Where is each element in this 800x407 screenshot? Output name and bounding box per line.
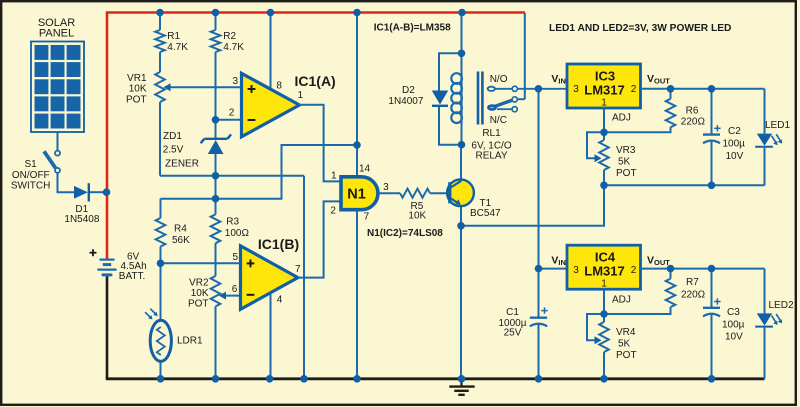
svg-text:1: 1: [331, 171, 337, 182]
svg-text:3: 3: [573, 84, 579, 95]
svg-text:VR3: VR3: [616, 145, 636, 156]
svg-text:R7: R7: [686, 277, 699, 288]
svg-text:IC1(B): IC1(B): [258, 236, 299, 252]
svg-text:ZENER: ZENER: [165, 159, 199, 170]
svg-text:C1: C1: [506, 307, 519, 318]
svg-text:10K: 10K: [129, 84, 147, 95]
svg-text:LM317: LM317: [584, 83, 624, 98]
svg-text:3: 3: [383, 182, 389, 193]
svg-text:IC1(A): IC1(A): [295, 73, 336, 89]
svg-text:5K: 5K: [618, 157, 631, 168]
svg-text:R3: R3: [226, 217, 239, 228]
svg-text:5K: 5K: [618, 339, 631, 350]
svg-text:N/O: N/O: [490, 74, 508, 85]
svg-text:ZD1: ZD1: [163, 131, 182, 142]
svg-text:VR2: VR2: [189, 278, 209, 289]
svg-text:IC4: IC4: [595, 250, 616, 265]
svg-text:56K: 56K: [172, 235, 190, 246]
svg-text:VR4: VR4: [616, 327, 636, 338]
svg-text:R1: R1: [167, 31, 180, 42]
svg-text:POT: POT: [616, 168, 637, 179]
svg-text:BATT.: BATT.: [119, 271, 145, 282]
svg-text:POT: POT: [126, 95, 147, 106]
svg-text:2: 2: [631, 84, 637, 95]
svg-text:IC1(A-B)=LM358: IC1(A-B)=LM358: [374, 23, 451, 34]
svg-text:R6: R6: [686, 106, 699, 117]
svg-text:IC3: IC3: [595, 69, 615, 84]
svg-text:25V: 25V: [504, 328, 522, 339]
svg-text:PANEL: PANEL: [39, 28, 74, 40]
svg-text:2.5V: 2.5V: [163, 145, 184, 156]
svg-text:D2: D2: [402, 85, 415, 96]
svg-text:C3: C3: [727, 307, 740, 318]
svg-text:10V: 10V: [725, 332, 743, 343]
svg-text:BC547: BC547: [470, 208, 501, 219]
svg-text:N/C: N/C: [490, 115, 507, 126]
svg-text:10V: 10V: [726, 151, 744, 162]
svg-text:1N5408: 1N5408: [64, 214, 99, 225]
svg-text:6: 6: [232, 284, 238, 295]
svg-text:RL1: RL1: [482, 128, 501, 139]
svg-text:10K: 10K: [408, 211, 426, 222]
svg-text:100µ: 100µ: [723, 139, 746, 150]
svg-text:LDR1: LDR1: [177, 336, 203, 347]
svg-text:ADJ: ADJ: [612, 295, 631, 306]
svg-text:220Ω: 220Ω: [681, 117, 706, 128]
svg-text:S1: S1: [25, 159, 38, 170]
svg-text:3: 3: [573, 265, 579, 276]
svg-text:POT: POT: [188, 299, 209, 310]
svg-text:N1(IC2)=74LS08: N1(IC2)=74LS08: [367, 228, 443, 239]
svg-text:RELAY: RELAY: [475, 151, 507, 162]
svg-text:10K: 10K: [191, 288, 209, 299]
svg-text:8: 8: [276, 81, 282, 92]
svg-text:100µ: 100µ: [722, 320, 745, 331]
svg-text:220Ω: 220Ω: [681, 290, 706, 301]
svg-text:LED2: LED2: [769, 300, 794, 311]
svg-text:LED1: LED1: [765, 120, 790, 131]
svg-text:3: 3: [233, 76, 239, 87]
svg-text:SWITCH: SWITCH: [11, 181, 50, 192]
svg-text:1: 1: [601, 98, 607, 109]
svg-text:POT: POT: [616, 350, 637, 361]
svg-text:R4: R4: [174, 224, 187, 235]
svg-text:4.7K: 4.7K: [167, 42, 188, 53]
svg-text:4.7K: 4.7K: [223, 42, 244, 53]
svg-text:R2: R2: [223, 31, 236, 42]
svg-text:C2: C2: [728, 126, 741, 137]
svg-text:N1: N1: [347, 186, 366, 202]
svg-text:1: 1: [298, 90, 304, 101]
svg-text:7: 7: [295, 264, 301, 275]
svg-text:LED1 AND LED2=3V, 3W POWER LED: LED1 AND LED2=3V, 3W POWER LED: [549, 23, 731, 34]
svg-text:ADJ: ADJ: [612, 113, 631, 124]
svg-text:14: 14: [359, 164, 371, 175]
svg-text:7: 7: [364, 212, 370, 223]
svg-text:1: 1: [601, 279, 607, 290]
svg-text:5: 5: [233, 252, 239, 263]
svg-text:LM317: LM317: [584, 264, 624, 279]
svg-text:1N4007: 1N4007: [388, 96, 423, 107]
svg-text:100Ω: 100Ω: [225, 228, 250, 239]
svg-text:ON/OFF: ON/OFF: [12, 170, 50, 181]
svg-text:2: 2: [330, 206, 336, 217]
svg-text:2: 2: [631, 265, 637, 276]
svg-text:2: 2: [229, 108, 235, 119]
svg-text:VR1: VR1: [127, 73, 147, 84]
svg-text:4: 4: [277, 295, 283, 306]
